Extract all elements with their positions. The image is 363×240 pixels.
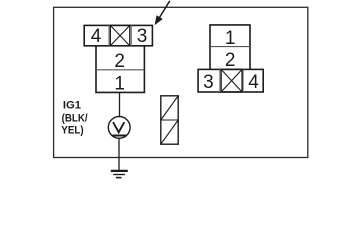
voltmeter V1 (108, 117, 130, 139)
svg-text:1: 1 (114, 74, 125, 95)
connector B cavity row outline (198, 69, 263, 92)
crossed empty cavity box (connector A) (110, 25, 130, 45)
connector A cavity divider right (130, 25, 132, 45)
svg-text:4: 4 (91, 26, 102, 47)
arrow pointing at pin 3 cavity (155, 1, 170, 25)
IG1 (BLK/YEL) wire label (61, 99, 88, 136)
svg-text:2: 2 (114, 51, 125, 72)
svg-text:1: 1 (225, 28, 236, 49)
wire from voltmeter to ground (118, 138, 120, 170)
connector A body divider (96, 69, 144, 71)
ground symbol (111, 171, 128, 178)
svg-text:(BLK/: (BLK/ (62, 112, 89, 124)
connector A body box (cells 2 and 1) (96, 46, 144, 93)
svg-text:IG1: IG1 (63, 99, 82, 111)
connector B body box (cells 1 and 2) (210, 25, 250, 70)
intermediate connector symbol (two-cell hatched box) (161, 96, 178, 144)
crossed empty cavity box (connector B) (221, 69, 242, 92)
connector B body divider (210, 46, 250, 48)
svg-text:3: 3 (203, 72, 214, 93)
connector B cavity divider right (242, 69, 244, 92)
wire from connector A pin 1 to voltmeter (119, 92, 121, 116)
svg-text:YEL): YEL) (61, 125, 83, 137)
connector A cavity divider left (108, 25, 110, 45)
svg-text:4: 4 (248, 72, 259, 93)
connector A cavity row outline (84, 25, 152, 45)
svg-text:2: 2 (225, 50, 236, 71)
frame border (54, 7, 308, 157)
connector B cavity divider left (219, 69, 221, 92)
svg-text:3: 3 (137, 26, 148, 47)
